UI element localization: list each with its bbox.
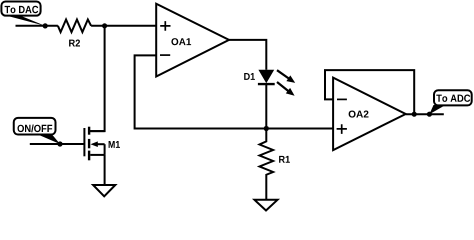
transistor M1 (NMOS) <box>84 127 104 161</box>
wire: junction down to M1 drain <box>89 26 105 131</box>
wire: M1 source to ground <box>104 155 106 185</box>
callout To ADC <box>429 90 471 114</box>
node junction: LED cathode / R1 / OA2 input <box>264 126 269 131</box>
wire: OA2 output <box>406 113 444 115</box>
value label R2 <box>69 40 80 47</box>
wire: OA2 feedback loop <box>325 70 414 114</box>
op-amp OA1 <box>156 4 229 77</box>
wire: OA1 output to LED anode <box>229 40 266 70</box>
callout ON/OFF <box>14 118 60 144</box>
callout To DAC <box>1 2 45 26</box>
wire: LED cathode down to node <box>265 83 267 128</box>
wire: To DAC stub to R2 <box>16 25 58 27</box>
wire: ON/OFF to M1 gate <box>30 143 85 145</box>
node junction: R2 output / M1 drain <box>102 23 107 28</box>
node: ADC wire anchor dot <box>427 112 432 117</box>
value label M1 <box>109 141 120 148</box>
resistor R2 <box>58 19 91 32</box>
ground under M1 <box>93 185 115 196</box>
value label R1 <box>279 156 290 163</box>
node: DAC wire anchor dot <box>43 23 48 28</box>
wire: R2 to OA1 noninverting input <box>91 25 156 27</box>
value label D1 <box>244 73 255 80</box>
diode D1 (LED) <box>258 70 295 96</box>
op-amp OA2 <box>333 78 406 151</box>
resistor R1 <box>260 129 274 200</box>
wire: OA1 feedback from inverting input to node to OA2 noninverting input <box>135 55 334 128</box>
node: ON/OFF wire anchor dot <box>57 141 62 146</box>
ground under R1 <box>255 200 278 211</box>
node: feedback junction at OA2 output <box>412 112 417 117</box>
